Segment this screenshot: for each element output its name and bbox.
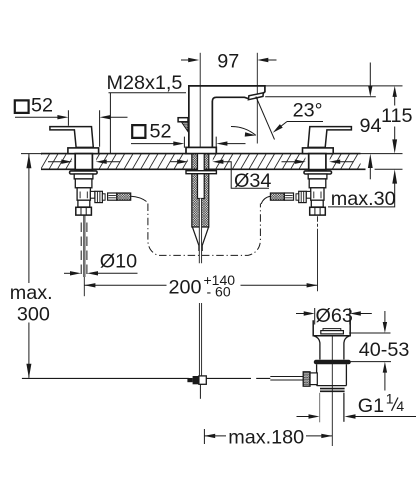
- drain knob stem: [310, 373, 317, 385]
- right hose curve solid: [261, 196, 270, 204]
- spout shank inner tube: [198, 154, 205, 199]
- drain knob knurled: [303, 372, 310, 386]
- left valve nut: [76, 207, 92, 215]
- left valve hose spacer: [102, 194, 105, 200]
- left pipe dashed O10: [81, 223, 87, 278]
- counter deck hatching: [24, 154, 375, 170]
- spout aerator: [248, 93, 263, 100]
- drain tailpiece: [319, 393, 321, 423]
- spout body: [189, 86, 265, 147]
- svg-text:115: 115: [381, 105, 413, 127]
- left valve body upper: [75, 179, 92, 188]
- pop-up rod vertical: [199, 303, 201, 376]
- svg-text:Ø34: Ø34: [234, 170, 271, 192]
- spout flange: [186, 171, 216, 174]
- svg-text:Ø10: Ø10: [100, 251, 137, 273]
- svg-text:97: 97: [217, 50, 239, 72]
- svg-text:23°: 23°: [293, 100, 323, 122]
- svg-text:G1: G1: [358, 395, 384, 417]
- spout escutcheon: [186, 147, 216, 153]
- dimension max30: [328, 175, 395, 207]
- right handle shank in deck: [309, 154, 326, 170]
- svg-text:300: 300: [17, 303, 50, 325]
- drain O-ring: [314, 360, 351, 365]
- outlet reference line 94: [265, 96, 376, 98]
- dimension 40-53: [348, 333, 391, 362]
- rod clamp: [187, 378, 192, 382]
- svg-text:52: 52: [150, 120, 172, 142]
- left braided hose: [117, 193, 131, 200]
- left handle shank in deck: [75, 154, 92, 170]
- dimension 115: [394, 92, 396, 106]
- drain plug: [323, 329, 341, 331]
- right handle escutcheon: [303, 148, 334, 154]
- left handle lever: [50, 127, 93, 148]
- left valve body lower: [78, 200, 90, 207]
- dimension square52 center: [132, 125, 145, 138]
- dimension O63: [296, 313, 309, 315]
- right pipe centerline: [317, 216, 319, 291]
- 23deg vertical reference line: [256, 53, 258, 144]
- svg-text:94: 94: [360, 115, 382, 137]
- svg-text:max.180: max.180: [228, 427, 304, 449]
- deck hole arrows left handle: [48, 161, 66, 163]
- left valve collar: [74, 174, 93, 179]
- dimension 94: [369, 63, 371, 89]
- svg-text:max.30: max.30: [331, 188, 396, 210]
- dimension max 300: [28, 154, 30, 283]
- deck hole arrows right handle: [282, 161, 300, 163]
- svg-text:200: 200: [169, 277, 202, 299]
- dimension 97: [181, 59, 277, 61]
- drain centerline: [331, 327, 333, 446]
- drain flange: [313, 320, 351, 336]
- svg-text:max.: max.: [10, 282, 53, 304]
- drain neck: [314, 336, 351, 360]
- right valve body lower: [311, 200, 323, 207]
- right hose ferrule: [284, 193, 293, 200]
- dimension O10: [64, 272, 75, 274]
- right braided hose: [270, 193, 284, 200]
- dimension 23deg: [256, 97, 275, 140]
- spout centerline: [199, 53, 201, 154]
- hose dash-dot loop: [148, 204, 261, 256]
- spout pull rod upper: [200, 199, 202, 264]
- dimension 200 +140 -60: [84, 284, 317, 286]
- spout shank taper: [192, 227, 208, 251]
- deck hole arrows spout / O34 leader: [171, 161, 183, 163]
- right valve body upper: [309, 179, 326, 188]
- svg-text:Ø63: Ø63: [316, 305, 353, 327]
- counter deck outline: [21, 154, 403, 170]
- top reference line 115: [257, 85, 402, 87]
- svg-text:M28x1,5: M28x1,5: [107, 72, 183, 94]
- drain coupling rings: [320, 389, 345, 392]
- right valve body mid: [311, 188, 324, 200]
- svg-text:4: 4: [396, 398, 404, 414]
- svg-text:1: 1: [386, 391, 394, 407]
- pop-up rod horizontal: [22, 377, 270, 379]
- svg-text:52: 52: [31, 95, 53, 117]
- right handle lever: [308, 127, 351, 148]
- left handle escutcheon: [68, 148, 99, 154]
- left pipe centerline: [83, 277, 85, 296]
- left pipe tube: [84, 216, 85, 278]
- right valve collar: [308, 174, 327, 179]
- spout shank hatched: [192, 154, 209, 227]
- dimension square52 left: [15, 100, 29, 113]
- svg-text:- 60: - 60: [207, 284, 231, 300]
- spout side lever: [178, 118, 188, 122]
- right valve nut: [310, 207, 326, 215]
- right valve flange: [304, 171, 332, 174]
- left valve body mid: [77, 188, 90, 200]
- drain body below ring: [317, 364, 347, 385]
- left valve hose nut: [95, 191, 103, 202]
- left hose ferrule: [108, 193, 117, 200]
- left hose curve solid: [131, 196, 147, 201]
- svg-text:40-53: 40-53: [359, 339, 410, 361]
- right valve outlet stub: [306, 191, 311, 198]
- right valve hose spacer: [296, 194, 299, 200]
- left valve flange: [70, 171, 98, 174]
- right valve hose nut: [299, 191, 307, 202]
- dimension max180: [204, 435, 332, 437]
- left valve outlet stub: [90, 191, 95, 198]
